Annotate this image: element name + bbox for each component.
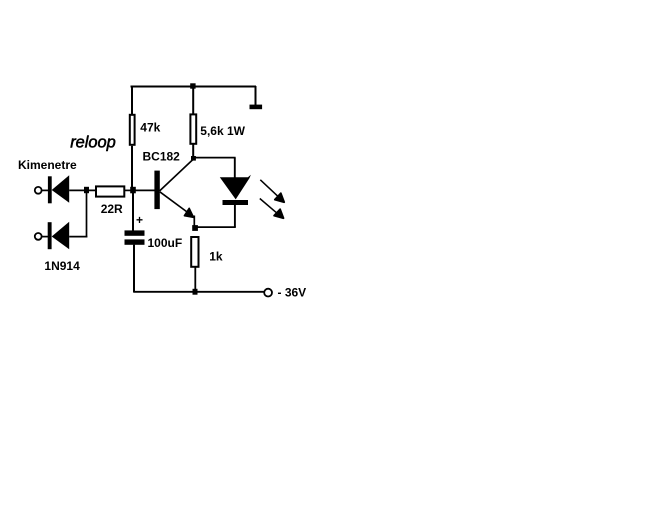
node collector junction: [191, 156, 196, 161]
svg-text:reloop: reloop: [70, 133, 116, 151]
svg-text:1N914: 1N914: [44, 259, 80, 273]
wire collector node to LED top: [194, 157, 236, 159]
emitter arrowhead: [184, 208, 193, 217]
wire from rail down to supply bar: [255, 86, 257, 105]
wire LED bottom to emitter node: [195, 226, 236, 228]
svg-text:22R: 22R: [101, 202, 123, 216]
wire 1k bottom to rail: [194, 267, 196, 292]
wire rail to R2 top: [192, 87, 194, 116]
terminal circle input 2: [35, 233, 42, 240]
diode D2 1N914 cathode bar: [48, 222, 52, 249]
node left junction: [84, 187, 89, 193]
svg-text:1k: 1k: [209, 249, 223, 263]
resistor R3 22R body: [96, 186, 124, 196]
svg-text:+: +: [136, 213, 143, 227]
svg-text:5,6k 1W: 5,6k 1W: [200, 124, 245, 138]
svg-text:100uF: 100uF: [148, 236, 183, 250]
resistor R4 1k body: [191, 237, 198, 267]
wire LED top vertical: [234, 158, 236, 178]
wire left junction down to D2: [86, 190, 88, 237]
svg-text:BC182: BC182: [143, 149, 181, 163]
node emitter junction: [192, 225, 198, 231]
capacitor C1 plate bottom: [125, 239, 145, 244]
node junction on top rail: [190, 83, 195, 88]
transistor Q1 BC182 base bar: [154, 171, 159, 210]
LED D3 cathode bar: [223, 200, 249, 205]
wire bottom rail: [133, 291, 263, 293]
wire terminal2 to D2: [42, 236, 48, 238]
wire 22R to base node: [124, 189, 133, 191]
wire collector diagonal: [160, 159, 195, 192]
wire D2 to vertical riser: [69, 236, 87, 238]
diode D1 1N914 triangle: [52, 175, 69, 203]
wire LED bottom vertical: [234, 205, 236, 227]
light arrow 1 head: [275, 193, 284, 202]
terminal circle -36V: [264, 289, 272, 297]
terminal circle input 1: [35, 187, 42, 194]
light arrow 2 head: [274, 209, 283, 218]
node base junction: [130, 187, 136, 194]
diode D2 1N914 triangle: [52, 222, 69, 250]
wire R2 bottom to collector node: [192, 144, 194, 159]
capacitor C1 plate top: [125, 230, 145, 235]
light arrow 2 shaft: [260, 199, 278, 214]
svg-text:- 36V: - 36V: [278, 285, 307, 299]
svg-text:Kimenetre: Kimenetre: [18, 158, 77, 172]
wire top rail: [131, 86, 257, 88]
wire D1 to left junction: [69, 189, 96, 191]
LED D3 triangle: [220, 175, 251, 200]
wire rail to R1 top: [131, 87, 133, 116]
resistor R2 5,6k 1W body: [190, 114, 196, 143]
resistor R1 47k body: [130, 115, 135, 145]
wire base node to transistor base: [133, 189, 155, 191]
wire terminal1 to D1: [42, 189, 48, 191]
diode D1 1N914 cathode bar: [48, 176, 52, 203]
supply bar terminal: [250, 105, 263, 110]
light arrow 1 shaft: [260, 180, 278, 197]
wire R1 bottom to base node: [131, 146, 133, 190]
wire emitter diagonal: [160, 192, 191, 215]
node bottom rail junction: [193, 289, 198, 295]
svg-text:47k: 47k: [140, 121, 160, 135]
wire base node down to capacitor: [132, 190, 134, 231]
wire capacitor to bottom rail: [133, 245, 135, 292]
wire emitter arrow to emitter node: [193, 216, 195, 229]
